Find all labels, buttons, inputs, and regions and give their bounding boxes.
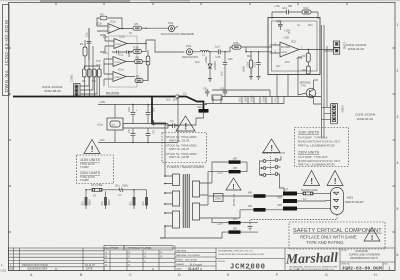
- svg-text:TELEPHONE MILTON KEYNES (0908): TELEPHONE MILTON KEYNES (0908) 375411: [218, 254, 265, 256]
- svg-text:C10: C10: [127, 107, 131, 112]
- feedback R3: [97, 18, 122, 29]
- switch SW1 contacts: [263, 160, 266, 163]
- svg-text:R8: R8: [136, 75, 140, 79]
- svg-text:FINISH SEE DETAIL: FINISH SEE DETAIL: [176, 258, 198, 261]
- svg-text:!: !: [184, 122, 187, 132]
- svg-text:C11: C11: [85, 32, 89, 37]
- svg-text:REVERB: REVERB: [181, 32, 194, 36]
- svg-text:C3: C3: [183, 91, 187, 95]
- svg-text:H: H: [374, 273, 377, 277]
- svg-text:47u: 47u: [129, 201, 133, 206]
- node junction dots PSU: [151, 96, 153, 98]
- svg-text:IC2: IC2: [291, 40, 296, 44]
- svg-text:JIM MARSHALL (PRODUCTS) LTD.: JIM MARSHALL (PRODUCTS) LTD.: [218, 250, 254, 253]
- svg-text:W2: W2: [233, 227, 238, 231]
- svg-text:C+: C+: [297, 23, 301, 27]
- svg-text:SUPER LEAD STANDARD: SUPER LEAD STANDARD: [349, 253, 380, 257]
- svg-text:10K: 10K: [103, 35, 108, 39]
- svg-text:ISS: ISS: [9, 266, 13, 270]
- svg-text:1: 1: [388, 266, 391, 271]
- svg-text:!: !: [334, 176, 337, 186]
- svg-text:R4: R4: [92, 79, 96, 83]
- svg-text:R: R: [161, 256, 163, 259]
- links W7 W9b W8b: [278, 188, 332, 211]
- capacitor C1: [117, 51, 119, 54]
- svg-text:MODEL: MODEL: [218, 261, 227, 263]
- svg-text:F1=T1AMP TYPE 20x5: F1=T1AMP TYPE 20x5: [298, 155, 328, 159]
- svg-text:+150: +150: [283, 36, 290, 40]
- svg-text:!: !: [371, 233, 374, 242]
- svg-text:T2AMP: T2AMP: [80, 178, 89, 182]
- svg-text:PART No. LELMBNBNKR725V: PART No. LELMBNBNKR725V: [298, 144, 335, 148]
- bottom grid letters: [30, 273, 377, 277]
- resistor R6: [135, 56, 149, 64]
- secondary side wires: [200, 183, 213, 218]
- svg-text:CON1: CON1: [70, 74, 74, 82]
- svg-text:F1: F1: [303, 197, 307, 201]
- svg-text:6: 6: [397, 253, 399, 257]
- wire to PH2: [146, 40, 184, 52]
- svg-text:R2: R2: [82, 79, 86, 83]
- svg-text:1: 1: [397, 23, 399, 27]
- svg-text:2n2: 2n2: [166, 98, 171, 102]
- dashed stock box: [162, 133, 207, 163]
- svg-text:DWG No.: DWG No.: [341, 264, 351, 266]
- holes table: [104, 245, 124, 250]
- svg-text:115V: 115V: [217, 170, 223, 174]
- svg-text:ALL OTHER: ALL OTHER: [105, 247, 118, 250]
- connector CON2: [324, 41, 346, 54]
- resistor R15: [228, 41, 272, 53]
- svg-text:TR1: TR1: [301, 84, 307, 88]
- svg-text:!: !: [232, 184, 234, 191]
- svg-text:C13: C13: [253, 62, 257, 67]
- svg-text:BLETCHLEY MILTON KEYNES BUCKS: BLETCHLEY MILTON KEYNES BUCKS MK1 1DQ: [289, 269, 334, 271]
- svg-text:47u: 47u: [81, 201, 85, 206]
- capacitor C9: [146, 105, 156, 124]
- svg-text:MAINS INLET: MAINS INLET: [345, 200, 364, 204]
- svg-text:G: G: [325, 273, 328, 277]
- svg-text:JCM2000: JCM2000: [230, 264, 266, 272]
- svg-text:IC1c: IC1c: [118, 53, 124, 57]
- long vertical bus wires: [322, 25, 328, 138]
- model box: [216, 248, 285, 271]
- svg-text:JCM2000B: JCM2000B: [355, 249, 368, 253]
- svg-text:R5: R5: [135, 22, 139, 26]
- svg-text:MOSBL: MOSBL: [281, 45, 291, 49]
- op-amp IC2: [270, 28, 334, 63]
- op-amp IC1c: [104, 53, 134, 67]
- capacitor C14 vertical: [245, 51, 253, 79]
- ground chassis: [248, 227, 253, 230]
- box IC2: [268, 18, 320, 75]
- svg-text:2u2: 2u2: [195, 60, 200, 64]
- svg-text:C8: C8: [203, 86, 207, 90]
- wire +15V/-15V rails: [98, 105, 207, 143]
- svg-text:10K: 10K: [103, 51, 108, 55]
- capacitor C17: [276, 20, 283, 30]
- svg-text:G: G: [129, 260, 131, 263]
- warning triangle selector: [226, 178, 241, 190]
- svg-text:R12: R12: [247, 54, 252, 58]
- svg-text:115V: 115V: [217, 221, 223, 225]
- scanner top smudge: [0, 0, 400, 1]
- wire C2 leads: [123, 51, 132, 53]
- svg-text:IC1b: IC1b: [119, 35, 125, 39]
- inductor L1: [196, 50, 216, 56]
- regulator IC4: [97, 105, 123, 143]
- capacitor C11: [85, 28, 92, 60]
- capacitor C12: [282, 6, 292, 14]
- wire top rail: [272, 12, 318, 19]
- link W10: [165, 105, 209, 125]
- wire heavy to W10: [179, 97, 204, 110]
- svg-text:20n: 20n: [115, 184, 120, 188]
- input network row: [82, 66, 101, 96]
- svg-text:C9: C9: [221, 86, 225, 90]
- svg-text:MAINS SWITCH=STOCK No. 5217: MAINS SWITCH=STOCK No. 5217: [298, 140, 341, 144]
- svg-text:4: 4: [397, 161, 399, 165]
- svg-text:Marshall: Marshall: [285, 250, 339, 267]
- svg-text:C4: C4: [170, 119, 174, 123]
- svg-text:+15V: +15V: [296, 56, 303, 60]
- wire 0V rail under IC2: [212, 52, 288, 97]
- svg-text:+15V: +15V: [284, 28, 291, 32]
- svg-text:IC1a: IC1a: [97, 123, 103, 127]
- capacitor C7 series: [119, 188, 123, 192]
- resistor R13: [302, 6, 311, 14]
- svg-text:R3: R3: [100, 12, 104, 16]
- svg-text:115V UNITS: 115V UNITS: [298, 131, 319, 135]
- secondary windings: [193, 181, 200, 197]
- core: [183, 174, 189, 228]
- svg-text:W9: W9: [278, 195, 283, 199]
- svg-text:CON3: CON3: [341, 105, 345, 113]
- svg-text:PH1: PH1: [168, 21, 174, 25]
- svg-text:47u: 47u: [100, 201, 104, 206]
- op-amp IC1b: [100, 35, 147, 52]
- svg-text:2u2: 2u2: [219, 71, 223, 76]
- primary side wires: [165, 176, 173, 226]
- svg-text:!: !: [91, 144, 94, 154]
- link W8: [208, 196, 253, 205]
- svg-text:W9: W9: [248, 204, 253, 208]
- svg-text:DATE: DATE: [176, 267, 182, 270]
- earth symbol near C3: [152, 120, 156, 126]
- svg-text:230V: 230V: [215, 197, 221, 201]
- svg-text:!: !: [310, 176, 313, 186]
- svg-text:C8: C8: [98, 21, 102, 25]
- svg-text:W1: W1: [233, 217, 238, 221]
- svg-text:3: 3: [397, 115, 399, 119]
- svg-text:31-6-97: 31-6-97: [188, 267, 199, 271]
- capacitor C4: [168, 97, 178, 143]
- svg-text:umm: umm: [281, 51, 288, 54]
- material box: [175, 248, 216, 271]
- svg-text:115V UNITS: 115V UNITS: [80, 158, 101, 162]
- svg-text:R11: R11: [308, 23, 313, 27]
- capacitor C5: [127, 128, 135, 143]
- svg-text:R6: R6: [136, 56, 140, 60]
- svg-text:C6: C6: [152, 130, 156, 134]
- svg-text:47u: 47u: [141, 201, 145, 206]
- svg-text:umm: umm: [115, 76, 122, 79]
- svg-text:C5: C5: [127, 129, 131, 133]
- svg-text:630V: 630V: [122, 184, 128, 188]
- wire rail drop to box: [271, 12, 273, 19]
- resistor R8: [135, 66, 148, 83]
- capacitor C10: [127, 105, 138, 124]
- svg-text:STOCK No. TXMA-00062: STOCK No. TXMA-00062: [166, 152, 197, 156]
- svg-text:MAINS FUSE: MAINS FUSE: [301, 188, 318, 192]
- svg-text:D: D: [106, 264, 108, 267]
- capacitor C2: [127, 51, 129, 54]
- svg-text:CS1: CS1: [1, 269, 7, 273]
- svg-text:PART No. 22L25: PART No. 22L25: [169, 147, 190, 151]
- svg-text:230V UNITS: 230V UNITS: [298, 150, 320, 154]
- warning triangles above inlet: [304, 171, 344, 187]
- connector CON1: [70, 74, 81, 96]
- box IC2 inner: [272, 21, 318, 71]
- svg-text:JCM2-68-00: JCM2-68-00: [44, 89, 61, 93]
- dwg number box left: [3, 5, 10, 96]
- capacitor C9b on bus: [223, 91, 227, 93]
- capacitor C8 on bus: [205, 91, 209, 93]
- svg-text:umm: umm: [115, 61, 122, 64]
- svg-text:REVERB/MAINS INPUT: REVERB/MAINS INPUT: [350, 256, 379, 260]
- svg-text:REPLACE ONLY WITH SAME: REPLACE ONLY WITH SAME: [300, 234, 357, 239]
- svg-text:JCM2-61-00: JCM2-61-00: [348, 47, 365, 51]
- svg-text:TYPE AND RATING.: TYPE AND RATING.: [306, 240, 345, 245]
- resistor R2 vertical mid: [146, 50, 150, 81]
- svg-text:R15: R15: [234, 41, 239, 45]
- primary windings: [173, 174, 180, 186]
- svg-text:2: 2: [397, 69, 399, 73]
- svg-text:2u2: 2u2: [238, 97, 242, 102]
- svg-text:PART No. LELMBNBNKR725V: PART No. LELMBNBNKR725V: [298, 162, 335, 166]
- resistor R1B: [129, 44, 146, 58]
- svg-text:47u: 47u: [274, 97, 278, 102]
- svg-text:C: C: [129, 273, 132, 277]
- svg-text:450V: 450V: [107, 199, 111, 205]
- svg-text:POWER TRANSFORMER: POWER TRANSFORMER: [167, 165, 205, 169]
- op-amp IC1d: [104, 59, 135, 86]
- svg-text:+70v: +70v: [274, 4, 281, 8]
- svg-text:STOCK No. TXMA-00062: STOCK No. TXMA-00062: [166, 143, 197, 147]
- svg-text:C12: C12: [282, 6, 287, 10]
- svg-text:BLACK PHONO: BLACK PHONO: [161, 32, 180, 36]
- svg-text:C7: C7: [118, 193, 122, 197]
- svg-text:F1=T2AMP TYPE 20x5: F1=T2AMP TYPE 20x5: [298, 136, 328, 140]
- svg-text:JCM2-61-00: JCM2-61-00: [357, 117, 374, 121]
- svg-text:STOCK No. TXMA-00062: STOCK No. TXMA-00062: [166, 135, 197, 139]
- resistor R10: [302, 66, 310, 74]
- svg-text:PH2: PH2: [186, 44, 192, 48]
- svg-text:R13: R13: [304, 6, 309, 10]
- phono PH2: [182, 44, 198, 59]
- svg-text:ISSUE/MOD REF: ISSUE/MOD REF: [27, 266, 48, 270]
- svg-text:47K: 47K: [96, 63, 101, 67]
- svg-text:± (THROUGH PLATED): ± (THROUGH PLATED): [126, 247, 152, 250]
- svg-text:R10: R10: [302, 68, 307, 72]
- svg-text:C15: C15: [216, 55, 221, 59]
- mains inlet MS1: [331, 188, 365, 215]
- revision table: [9, 251, 105, 267]
- svg-text:+15V: +15V: [99, 100, 106, 104]
- svg-text:4u7: 4u7: [276, 64, 281, 68]
- svg-text:1K: 1K: [129, 31, 132, 35]
- svg-text:450V: 450V: [88, 199, 92, 205]
- svg-text:D: D: [178, 273, 181, 277]
- capacitor C13 vertical: [253, 51, 261, 79]
- wire C1 leads: [112, 51, 123, 53]
- smoothing capacitors: [81, 197, 148, 209]
- svg-text:JCM2-63-00.DGM: JCM2-63-00.DGM: [342, 265, 382, 271]
- svg-text:DWG.No. JCM2-63-00.DGM: DWG.No. JCM2-63-00.DGM: [4, 20, 10, 93]
- svg-text:RED PHONO: RED PHONO: [182, 55, 198, 59]
- svg-text:W10: W10: [198, 105, 204, 109]
- svg-text:47u: 47u: [250, 69, 254, 74]
- wire CON1 to preamp: [80, 28, 97, 94]
- svg-text:W8: W8: [248, 190, 253, 194]
- svg-text:R9: R9: [302, 54, 306, 58]
- diode ZD1 vertical: [204, 51, 212, 81]
- svg-text:220R: 220R: [204, 57, 208, 63]
- op-amp IC1a: [97, 12, 133, 33]
- svg-text:DATE: DATE: [86, 266, 93, 270]
- svg-text:REVERB: REVERB: [106, 92, 119, 96]
- svg-text:22K: 22K: [228, 57, 233, 61]
- svg-text:-15V: -15V: [284, 60, 290, 64]
- heavy branch to C4: [152, 97, 166, 124]
- capacitor C16 plates: [223, 63, 227, 65]
- earth dashed run: [250, 215, 337, 227]
- svg-text:MAINS SWITCH=STOCK No. 5217: MAINS SWITCH=STOCK No. 5217: [298, 159, 341, 163]
- svg-text:W7: W7: [284, 188, 289, 192]
- svg-text:PART No. 22L85: PART No. 22L85: [169, 155, 190, 159]
- box around IC1c/IC1d: [109, 36, 138, 87]
- svg-text:1u0: 1u0: [215, 45, 220, 49]
- svg-text:umm: umm: [116, 43, 123, 46]
- capacitor C6: [146, 128, 156, 143]
- svg-text:100n: 100n: [242, 66, 246, 72]
- resistor R1 (vertical, left): [80, 40, 87, 68]
- svg-text:L1: L1: [202, 53, 205, 57]
- svg-text:-15V: -15V: [99, 138, 105, 142]
- svg-text:MATERIAL: MATERIAL: [176, 249, 188, 252]
- regulator IC3: [203, 86, 321, 103]
- title box: [340, 248, 395, 271]
- phono PH1: [161, 21, 180, 36]
- capacitor C15: [215, 45, 228, 59]
- svg-text:!: !: [270, 144, 273, 153]
- svg-text:MATERIAL THICKNESS: MATERIAL THICKNESS: [176, 254, 200, 257]
- svg-text:F2: F2: [93, 194, 97, 198]
- svg-text:47K: 47K: [96, 59, 101, 63]
- svg-text:W5: W5: [233, 157, 238, 161]
- svg-text:C17: C17: [277, 20, 282, 24]
- svg-text:W6: W6: [233, 166, 238, 170]
- svg-text:2kV: 2kV: [173, 98, 178, 102]
- svg-text:PART No. 22L7B: PART No. 22L7B: [169, 138, 190, 142]
- svg-text:R1B: R1B: [134, 45, 139, 49]
- svg-text:C: C: [106, 260, 108, 263]
- right grid numbers: [397, 23, 399, 257]
- svg-text:230V UNITS: 230V UNITS: [80, 171, 101, 175]
- resistor R14: [302, 49, 310, 66]
- link W5: [212, 162, 228, 183]
- svg-text:IC1a: IC1a: [110, 20, 116, 24]
- wire REVERB bus: [13, 96, 175, 98]
- wire cap bank frame: [123, 124, 168, 129]
- svg-text:NB: NB: [288, 4, 292, 8]
- svg-text:MAINS SWITCH: MAINS SWITCH: [262, 151, 285, 155]
- svg-text:5: 5: [397, 207, 399, 211]
- svg-text:H: H: [129, 264, 131, 267]
- warning triangle switch: [263, 139, 280, 153]
- svg-text:R1: R1: [80, 42, 84, 46]
- svg-text:MS1: MS1: [347, 195, 354, 199]
- svg-text:1N4007: 1N4007: [213, 60, 217, 70]
- resistor R5: [133, 22, 165, 30]
- connector CON3: [322, 103, 345, 123]
- svg-text:T1AMP: T1AMP: [80, 165, 89, 169]
- svg-text:R.Gough: R.Gough: [189, 262, 202, 266]
- svg-text:IC1d: IC1d: [118, 68, 124, 72]
- svg-text:DRAWN: DRAWN: [176, 263, 185, 266]
- svg-text:W8: W8: [278, 203, 283, 207]
- jack C3: [176, 95, 179, 98]
- svg-text:TITLE: TITLE: [341, 250, 347, 252]
- fuse F1: [301, 188, 331, 201]
- svg-text:C14: C14: [245, 62, 249, 67]
